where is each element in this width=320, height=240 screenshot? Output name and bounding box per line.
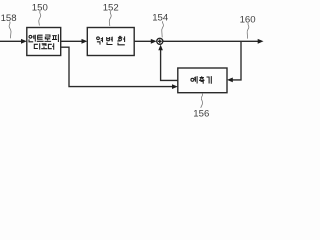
엔 — [29, 35, 32, 38]
svg-text:158: 158 — [1, 13, 17, 24]
예 — [191, 78, 194, 81]
wire: entropy decoder to inverse transform — [61, 40, 83, 42]
wire: predictor output up to adder — [161, 49, 178, 81]
svg-text:156: 156 — [193, 108, 209, 119]
leader squiggle for label 158 — [9, 22, 11, 39]
변 — [107, 37, 113, 45]
leader squiggle for label 156 — [201, 94, 203, 108]
코 — [41, 44, 47, 49]
arrowhead into predictor right — [227, 78, 233, 83]
adder node 154 (circle with plus) — [157, 38, 163, 44]
wire: entropy decoder lower branch to predictor — [61, 47, 174, 86]
leader squiggle for label 152 — [109, 11, 111, 26]
역 — [97, 37, 103, 44]
wire: inverse transform to adder — [134, 40, 152, 42]
arrowhead into adder from left — [151, 39, 157, 44]
wire: adder to output 160 — [163, 40, 259, 42]
더 — [48, 43, 53, 50]
피 — [52, 34, 58, 42]
arrowhead into predictor left — [172, 84, 178, 89]
text 디코더 (decoder) line 2 in U150 — [34, 43, 53, 50]
wire: input line into entropy decoder — [0, 40, 23, 42]
leader squiggle for label 160 — [247, 23, 249, 39]
svg-text:154: 154 — [152, 13, 169, 24]
로 — [44, 35, 51, 41]
leader squiggle for label 150 — [39, 11, 41, 26]
측 — [199, 76, 205, 84]
기 — [207, 76, 212, 84]
block U152 inverse transform box — [87, 28, 134, 56]
text 예측기 (predictor) in U156 — [191, 76, 211, 84]
arrowhead up into adder bottom — [158, 45, 163, 51]
block U156 predictor box — [178, 68, 227, 93]
svg-text:160: 160 — [240, 14, 256, 25]
arrowhead output right end — [258, 39, 264, 44]
svg-text:150: 150 — [32, 3, 48, 14]
arrowhead into entropy decoder — [21, 39, 27, 44]
트 — [37, 35, 44, 41]
text 역변환 (inverse transform) in U152 — [97, 36, 125, 44]
arrowhead into inverse transform — [82, 39, 88, 44]
text 엔트로피 (entropy) line 1 in U150 — [29, 34, 58, 42]
leader squiggle for label 154 — [162, 21, 164, 37]
block U150 entropy decoder box — [27, 28, 61, 56]
디 — [34, 43, 39, 49]
환 — [117, 36, 125, 44]
svg-text:152: 152 — [103, 3, 119, 14]
wire: output feedback down to predictor right — [232, 41, 242, 80]
